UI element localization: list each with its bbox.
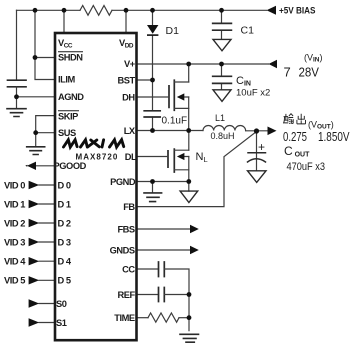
- svg-text:BST: BST: [117, 75, 135, 85]
- svg-text:S1: S1: [56, 318, 67, 328]
- node SUS junction: [33, 130, 38, 135]
- capacitor C1 wires: [221, 10, 223, 39]
- node AGND junction: [14, 94, 19, 99]
- ground (C1 open triangle): [213, 39, 231, 50]
- svg-text:D 2: D 2: [58, 218, 71, 228]
- arrow VOUT output: [268, 127, 277, 136]
- transistor NH high-side MOSFET: [169, 80, 174, 110]
- ground (SKIP/SUS): [27, 147, 45, 155]
- node top rail / C1: [219, 8, 224, 13]
- svg-text:D 5: D 5: [58, 276, 71, 286]
- svg-text:+5V BIAS: +5V BIAS: [279, 6, 316, 16]
- transistor NL body arrow: [177, 153, 185, 160]
- wire PGND pin: [137, 181, 189, 183]
- capacitor COUT plates: [248, 153, 266, 162]
- node top rail / D1: [150, 8, 155, 13]
- svg-text:D 1: D 1: [58, 199, 71, 209]
- node REF common: [187, 292, 192, 297]
- node top rail / SHDN: [33, 8, 38, 13]
- wire LX pin: [137, 130, 204, 132]
- svg-text:VID 5: VID 5: [4, 276, 25, 286]
- svg-text:0.8uH: 0.8uH: [211, 131, 235, 141]
- svg-text:VID 3: VID 3: [4, 237, 25, 247]
- ground (VCC bypass): [7, 109, 26, 117]
- node V+ / NH drain: [186, 62, 191, 67]
- svg-text:SHDN: SHDN: [58, 53, 83, 63]
- node TIME common: [187, 315, 192, 320]
- label 输出 chinese output: [283, 114, 305, 124]
- svg-text:LX: LX: [124, 126, 136, 136]
- wire top rail left segment: [17, 9, 81, 11]
- wire VDD pin: [125, 10, 127, 33]
- node LX / 0.1uF: [150, 128, 155, 133]
- wire AGND pin: [17, 96, 55, 98]
- node output VOUT: [254, 128, 259, 133]
- arrow S1: [29, 318, 40, 326]
- arrow FBS: [190, 225, 199, 233]
- svg-text:SUS: SUS: [58, 128, 76, 138]
- wire FBS pin: [137, 228, 191, 230]
- inductor L1: [203, 126, 246, 131]
- svg-text:TIME: TIME: [114, 313, 135, 323]
- ground (CC/REF/TIME hatched): [180, 334, 199, 342]
- svg-text:REF: REF: [117, 290, 135, 300]
- svg-text:0.275: 0.275: [283, 129, 307, 144]
- ground (COUT open triangle): [248, 171, 267, 183]
- wire D2 pin: [39, 222, 54, 224]
- wire CC cap to common: [164, 269, 189, 331]
- capacitor CC plates: [159, 262, 165, 277]
- svg-text:MAX8720: MAX8720: [76, 153, 119, 162]
- svg-text:D 0: D 0: [58, 180, 71, 190]
- svg-text:28V: 28V: [299, 65, 320, 80]
- op-amp U1 MAX8720 IC body: [55, 33, 137, 340]
- svg-text:10uF x2: 10uF x2: [236, 88, 270, 99]
- resistor TIME: [148, 313, 179, 322]
- svg-text:C1: C1: [241, 25, 255, 37]
- diode D1 wires: [152, 10, 154, 80]
- capacitor CIN plates: [213, 76, 232, 83]
- ground (CIN open triangle): [213, 90, 231, 102]
- svg-text:CC: CC: [122, 265, 135, 275]
- arrow VIN input: [269, 60, 278, 69]
- node LX / NH-NL: [186, 128, 191, 133]
- wire TIME pin: [137, 317, 149, 319]
- wire VCC pin: [63, 10, 65, 33]
- wire S1 pin: [39, 322, 54, 324]
- svg-text:VID 4: VID 4: [4, 257, 26, 267]
- svg-text:VID 1: VID 1: [4, 199, 25, 209]
- wire V+ rail: [137, 63, 269, 65]
- svg-text:V+: V+: [124, 59, 136, 69]
- wire D0 pin: [39, 184, 54, 186]
- arrow S0: [29, 299, 40, 307]
- wire top rail right segment: [112, 9, 267, 11]
- svg-text:D1: D1: [166, 25, 180, 37]
- arrow VID1: [29, 200, 40, 208]
- node PGND / NL source: [186, 179, 191, 184]
- capacitor C1 plates: [213, 23, 232, 30]
- svg-text:PGND: PGND: [110, 177, 136, 187]
- svg-text:ILIM: ILIM: [58, 75, 75, 85]
- wire PGOOD pin: [36, 165, 54, 167]
- node top rail / VCC: [62, 8, 67, 13]
- wire output node to COUT: [256, 131, 258, 170]
- wire NH source to LX: [188, 97, 190, 131]
- capacitor 0.1uF plates: [144, 111, 160, 117]
- svg-text:D 3: D 3: [58, 237, 71, 247]
- arrow PGOOD output: [25, 162, 36, 170]
- wire D1 pin: [39, 203, 54, 205]
- arrow VID5: [29, 276, 40, 284]
- wire REF pin: [137, 294, 159, 296]
- node V+ / CIN: [219, 62, 224, 67]
- ground (NL open triangle): [180, 191, 198, 202]
- transistor NH body arrow: [177, 93, 185, 100]
- wire DL pin: [137, 156, 169, 158]
- svg-text:FB: FB: [123, 202, 135, 212]
- wire CC pin: [137, 268, 159, 270]
- wire D4 pin: [39, 260, 54, 262]
- node top rail / VDD: [124, 8, 129, 13]
- arrow VID3: [29, 238, 40, 246]
- capacitor 0.1uF wires: [152, 80, 154, 131]
- wire L1 to output node: [246, 130, 268, 132]
- arrow VID0: [29, 181, 40, 189]
- svg-text:1.850V: 1.850V: [318, 129, 350, 144]
- wire NL drain to LX: [188, 131, 190, 151]
- svg-text:VID 2: VID 2: [4, 218, 25, 228]
- wire SHDN/ILIM branch: [35, 10, 54, 79]
- svg-text:470uF x3: 470uF x3: [287, 161, 326, 173]
- svg-text:D 4: D 4: [58, 257, 72, 267]
- svg-text:SKIP: SKIP: [58, 112, 78, 122]
- wire SKIP/SUS branch: [36, 116, 54, 147]
- wire BST pin: [137, 79, 153, 81]
- svg-text:AGND: AGND: [58, 92, 84, 102]
- capacitor CIN wires: [221, 64, 223, 90]
- svg-text:VID 0: VID 0: [4, 180, 25, 190]
- arrow GNDS: [190, 246, 199, 254]
- svg-text:DH: DH: [122, 92, 135, 102]
- wire D5 pin: [39, 279, 54, 281]
- wire left branch down to C2: [16, 10, 18, 80]
- resistor top (VCC to VDD): [80, 6, 112, 16]
- wire DH pin: [137, 96, 170, 98]
- wire C2 bottom to ground: [16, 87, 18, 108]
- wire NL source ground stub: [188, 182, 190, 192]
- node PGND ground: [150, 179, 155, 184]
- wire FB trace: [137, 132, 257, 207]
- svg-text:0.1uF: 0.1uF: [162, 116, 188, 127]
- wire PGND ground stub: [152, 182, 154, 193]
- node SHDN junction: [33, 55, 38, 60]
- svg-text:7: 7: [284, 65, 291, 80]
- wire REF cap to common: [164, 294, 189, 296]
- wire NL source to PGND: [188, 157, 190, 182]
- transistor NL low-side MOSFET: [168, 149, 174, 172]
- capacitor C2 (VCC bypass): [8, 80, 27, 87]
- arrow VID4: [29, 257, 40, 265]
- svg-text:L1: L1: [215, 113, 225, 123]
- logo MAXIM: [64, 140, 124, 147]
- diode D1 body: [147, 25, 158, 34]
- arrow +5V BIAS input: [267, 6, 277, 15]
- wire S0 pin: [39, 303, 54, 305]
- svg-text:S0: S0: [56, 299, 67, 309]
- node BST junction: [150, 78, 155, 83]
- arrow VID2: [29, 219, 40, 227]
- ground (PGND hatched): [144, 193, 162, 202]
- wire GNDS pin: [137, 249, 191, 251]
- svg-text:FBS: FBS: [117, 225, 134, 235]
- svg-text:GNDS: GNDS: [110, 246, 135, 256]
- wire NH drain to V+: [188, 64, 190, 82]
- capacitor REF plates: [159, 288, 165, 302]
- svg-text:DL: DL: [125, 152, 137, 162]
- svg-text:PGOOD: PGOOD: [54, 161, 87, 171]
- svg-text:+: +: [258, 140, 265, 154]
- wire TIME resistor to common: [179, 317, 189, 319]
- wire D3 pin: [39, 241, 54, 243]
